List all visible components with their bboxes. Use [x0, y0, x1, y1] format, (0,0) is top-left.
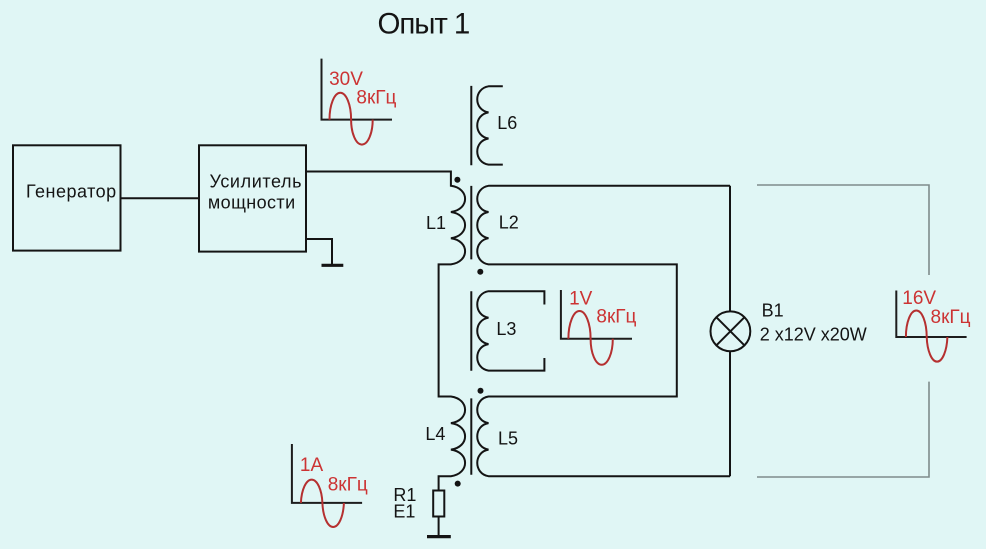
- svg-text:L5: L5: [498, 428, 518, 448]
- svg-text:8кГц: 8кГц: [596, 307, 636, 328]
- svg-text:мощности: мощности: [208, 193, 296, 213]
- svg-text:2 x12V x20W: 2 x12V x20W: [760, 325, 867, 345]
- svg-text:L6: L6: [497, 113, 517, 133]
- svg-text:L4: L4: [425, 424, 445, 444]
- svg-text:1V: 1V: [569, 289, 593, 310]
- svg-text:E1: E1: [393, 502, 415, 522]
- svg-text:Опыт 1: Опыт 1: [378, 8, 470, 41]
- svg-text:L3: L3: [496, 319, 516, 339]
- svg-text:Усилитель: Усилитель: [210, 171, 303, 191]
- svg-text:8кГц: 8кГц: [328, 475, 368, 496]
- svg-text:L1: L1: [426, 213, 446, 233]
- svg-text:1A: 1A: [300, 455, 324, 476]
- svg-text:Генератор: Генератор: [26, 181, 117, 201]
- svg-text:B1: B1: [762, 301, 784, 321]
- svg-text:L2: L2: [499, 213, 519, 233]
- svg-text:8кГц: 8кГц: [931, 307, 971, 328]
- svg-text:8кГц: 8кГц: [356, 88, 396, 109]
